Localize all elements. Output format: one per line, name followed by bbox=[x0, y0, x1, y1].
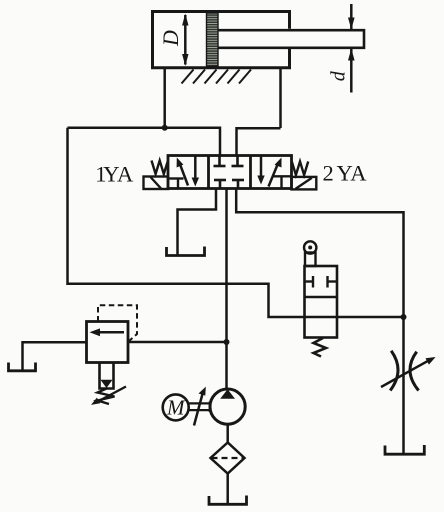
2/2 valve roller actuator bbox=[304, 241, 316, 266]
tank bottom center bbox=[209, 496, 247, 505]
relief valve spring housing bbox=[100, 363, 114, 389]
throttle adjustment arrow bbox=[381, 357, 436, 387]
tank bottom right bbox=[385, 445, 424, 454]
svg-text:D: D bbox=[158, 30, 183, 47]
svg-text:YA: YA bbox=[103, 161, 134, 186]
spring left of valve bbox=[152, 161, 169, 175]
wire B-line valve to cylinder bbox=[237, 128, 281, 156]
wire relief valve outlet to tank bbox=[23, 342, 87, 370]
2/2 way pilot valve body bbox=[305, 266, 338, 338]
svg-text:2: 2 bbox=[323, 160, 334, 185]
throttle valve adjustable bbox=[390, 351, 418, 391]
solenoid 2YA box bbox=[292, 177, 317, 190]
valve right position diagonal arrow bbox=[269, 158, 282, 187]
valve center position blocked port bottom-left bbox=[214, 180, 226, 188]
relief valve pilot line dashed bbox=[98, 305, 137, 341]
label D bbox=[158, 30, 183, 47]
label 1YA bbox=[95, 161, 134, 186]
relief valve arrow bbox=[90, 328, 125, 336]
valve left position down arrow bbox=[192, 156, 199, 187]
wire valve right bottom port to right line bbox=[236, 189, 403, 456]
svg-text:M: M bbox=[166, 396, 186, 420]
valve right position blocked stub bbox=[274, 176, 292, 188]
piston bbox=[207, 13, 219, 66]
dimension arrow D bbox=[182, 14, 188, 67]
piston rod bbox=[218, 30, 364, 48]
2/2 valve blocked position symbols bbox=[305, 276, 338, 288]
valve right position down arrow bbox=[257, 156, 264, 185]
filter diamond bbox=[211, 443, 245, 474]
tank far left bbox=[9, 363, 36, 371]
label d bbox=[328, 70, 350, 81]
wire relief valve inlet from pump line bbox=[128, 341, 227, 344]
tank under valve bbox=[167, 247, 205, 256]
node junction relief/pump line bbox=[224, 339, 230, 345]
pump output triangle bbox=[220, 389, 235, 399]
relief valve poppet triangle bbox=[101, 380, 113, 388]
svg-text:d: d bbox=[328, 70, 350, 81]
wire valve T port to tank bbox=[178, 189, 217, 256]
dimension arrows d on rod bbox=[348, 4, 355, 93]
wire cylinder left port down bbox=[163, 69, 166, 128]
directional valve body bbox=[168, 156, 292, 189]
motor-pump shaft bbox=[189, 402, 210, 413]
cylinder body (barrel) bbox=[153, 12, 290, 68]
wire cylinder right port down bbox=[279, 69, 282, 128]
spring right of valve bbox=[292, 162, 308, 176]
wire filter to tank bbox=[226, 474, 229, 505]
node junction cylinder-left/A-line bbox=[162, 125, 168, 131]
valve center position blocked port bottom-right bbox=[232, 180, 244, 188]
node junction right line bbox=[401, 314, 407, 320]
valve left position blocked stub bbox=[170, 179, 184, 189]
label 2YA bbox=[323, 160, 368, 185]
wire A-line horizontal to valve bbox=[68, 128, 221, 156]
relief valve adjustable spring bbox=[91, 387, 126, 405]
2/2 valve spring bbox=[314, 338, 327, 357]
solenoid 1YA box bbox=[144, 177, 169, 190]
valve center position blocked port top-left bbox=[214, 156, 226, 166]
wire through 2/2 valve to right line bbox=[305, 316, 404, 319]
svg-text:YA: YA bbox=[337, 160, 368, 185]
wire valve P port down to pump bbox=[225, 189, 228, 391]
valve left position diagonal arrow bbox=[177, 158, 188, 186]
wire left branch down to pilot valve line bbox=[68, 128, 305, 317]
motor circle M bbox=[163, 394, 189, 420]
shaft rotation arrow bbox=[194, 387, 206, 426]
pump circle bbox=[210, 389, 245, 424]
cylinder mounting hatching bbox=[182, 70, 252, 84]
relief valve body bbox=[87, 322, 129, 363]
valve center position blocked port top-right bbox=[232, 156, 244, 166]
wire pump to filter bbox=[226, 424, 229, 443]
